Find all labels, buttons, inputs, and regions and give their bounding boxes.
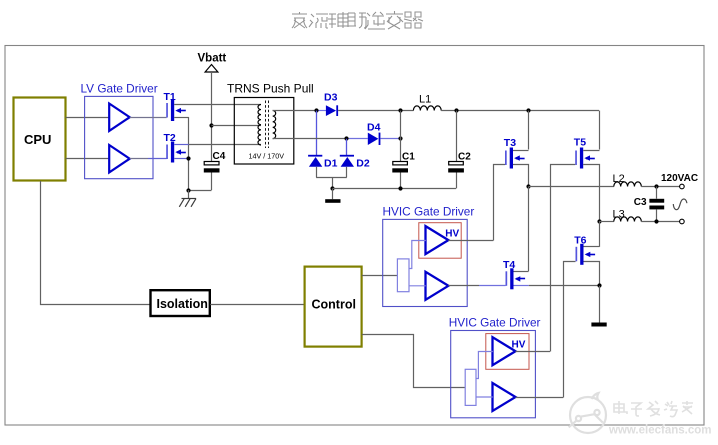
chassis ground <box>179 199 196 207</box>
node D3 anode junction <box>314 108 318 112</box>
HVIC driver 2 box <box>451 331 536 418</box>
node L3 tap <box>597 219 601 223</box>
wire connector to ground rail <box>332 177 334 188</box>
watermark logo (elecfans) bottom right <box>569 393 606 433</box>
wire D2 cathode vertical <box>346 139 348 155</box>
wire T3 source to midpoint <box>513 165 529 187</box>
transistor T5 (MOSFET) <box>575 148 595 169</box>
wire center tap to transformer <box>212 125 262 127</box>
svg-text:L1: L1 <box>419 94 431 106</box>
diode D1 <box>308 155 322 167</box>
svg-text:C4: C4 <box>213 151 226 162</box>
wire C4 bottom stem <box>211 173 213 191</box>
HVIC1 red HV box <box>419 223 461 259</box>
wire Control to HVIC1 input <box>362 275 398 277</box>
svg-text:T3: T3 <box>504 137 516 149</box>
svg-text:TRNS Push Pull: TRNS Push Pull <box>227 82 314 96</box>
svg-text:HV: HV <box>512 339 526 350</box>
AC sine symbol <box>673 199 687 210</box>
wire D2 anode stub <box>346 167 348 178</box>
title 交流辅助逆变器 (drawn strokes) <box>292 11 423 29</box>
inductor L2 <box>614 182 642 187</box>
wire L2 rail <box>529 186 614 188</box>
node T2 source junction <box>186 156 190 160</box>
wire T4 drain connector <box>514 271 529 273</box>
svg-text:D2: D2 <box>356 158 370 170</box>
wire T1 source right <box>174 117 189 119</box>
流 <box>309 14 328 28</box>
watermark text 电子发烧友 <box>614 401 693 417</box>
wire T5 gate to HVIC2 HV output <box>551 165 576 352</box>
wire T2 drain to transformer primary bottom <box>174 144 189 146</box>
wire L2 to terminal <box>641 186 679 188</box>
wire Vbatt stem to C4 <box>211 72 213 162</box>
wire T5 source vertical to L3 node <box>583 165 599 222</box>
wire T5 drain connector <box>583 150 599 152</box>
transformer core <box>265 101 267 149</box>
wire CPU to LV driver input 2 <box>66 158 111 160</box>
svg-text:Vbatt: Vbatt <box>198 53 227 65</box>
buffer U1B <box>109 145 130 172</box>
wire ground rail (D1D2 to C2) <box>333 188 456 190</box>
node D4 output junction <box>398 136 402 140</box>
inductor L1 <box>413 106 441 111</box>
wire T3 drain connector <box>513 150 529 152</box>
transformer primary winding <box>258 105 261 145</box>
wire HVIC2 shifter to lower buffer <box>476 396 493 398</box>
wire D1 branch vertical <box>316 111 318 155</box>
wire D3 cathode to L1 <box>338 110 413 112</box>
wire HVIC1 shifter to HV buffer <box>409 241 426 269</box>
wire HVIC2 HV output to T5 gate <box>516 351 551 353</box>
wire L1 to T5 drain corner <box>441 110 599 112</box>
wire T3 gate <box>494 165 506 241</box>
svg-text:120VAC: 120VAC <box>661 173 698 184</box>
wire C1 branch vertical <box>400 111 402 162</box>
capacitor C3 <box>649 199 664 210</box>
transformer secondary winding <box>273 111 276 139</box>
wire T4 source to ground node <box>514 285 529 287</box>
wire U1B output to T2 gate <box>130 158 148 160</box>
变 <box>386 11 403 29</box>
wire stub to right ground <box>599 286 601 323</box>
Vbatt symbol <box>205 65 218 73</box>
Control block <box>305 267 362 347</box>
capacitor C4 <box>204 162 220 173</box>
逆 <box>365 12 385 29</box>
HVIC1 lower buffer <box>426 272 449 300</box>
node D2 branch junction <box>344 136 348 140</box>
wire CPU to LV driver input 1 <box>66 117 111 119</box>
svg-text:D3: D3 <box>324 92 338 104</box>
wire D4 cathode to node <box>380 138 400 140</box>
CPU block <box>14 98 66 181</box>
node T4/T6 source junction <box>597 283 601 287</box>
wire T5 drain corner vertical <box>599 111 601 150</box>
svg-text:HVIC Gate Driver: HVIC Gate Driver <box>383 205 475 219</box>
node ground junction <box>186 188 190 192</box>
wire ground rail left <box>189 190 212 192</box>
HVIC1 HV buffer <box>426 226 449 254</box>
HVIC2 HV buffer <box>493 337 516 365</box>
HVIC1 level shifter <box>397 259 409 292</box>
wire secondary bottom to D4 <box>273 138 347 140</box>
terminal 120VAC neutral <box>680 219 685 224</box>
wire D1-D2 anode connector <box>316 177 347 179</box>
ground (bar) right <box>591 323 606 327</box>
capacitor C2 <box>448 162 464 173</box>
wire C1 bottom stem <box>400 173 402 189</box>
HVIC driver 1 box <box>383 219 468 306</box>
node T3/T4 midpoint <box>526 184 530 188</box>
ground (bar) <box>325 199 340 203</box>
svg-text:LV Gate Driver: LV Gate Driver <box>81 82 158 96</box>
buffer U1A <box>109 104 130 131</box>
wire U1A output to T1 gate <box>130 117 167 119</box>
node C1 ground junction <box>398 186 402 190</box>
svg-text:Isolation: Isolation <box>157 297 208 311</box>
inductor L3 <box>614 217 642 222</box>
交 <box>292 12 307 28</box>
wire stub to ground bar <box>332 188 334 199</box>
svg-text:14V / 170V: 14V / 170V <box>249 151 285 160</box>
器 <box>404 12 423 28</box>
svg-text:C3: C3 <box>634 197 647 208</box>
svg-text:D1: D1 <box>324 158 338 170</box>
wire T6 drain connector <box>584 246 600 248</box>
node D3/C1 branch top <box>398 108 402 112</box>
node L1 right junction <box>454 108 458 112</box>
node T3 drain tap <box>526 108 530 112</box>
svg-text:Control: Control <box>312 298 356 312</box>
diode D4 <box>368 133 381 145</box>
wire T1 drain to transformer primary top <box>174 104 261 106</box>
transistor T3 (MOSFET) <box>505 148 525 169</box>
capacitor C1 <box>392 162 408 173</box>
wire stub to chassis ground <box>188 190 190 199</box>
wire D1 anode stub <box>316 167 318 178</box>
svg-text:HV: HV <box>445 228 459 239</box>
wire L3 rail left <box>599 221 614 223</box>
svg-text:HVIC Gate Driver: HVIC Gate Driver <box>449 315 541 329</box>
wire T2 source right <box>174 158 189 160</box>
node C3 bottom tap <box>654 219 658 223</box>
wire T6 gate to HVIC2 output <box>564 262 576 398</box>
助 <box>347 13 366 28</box>
wire C2 bottom stem <box>456 173 458 189</box>
node ground rail left junction <box>330 186 334 190</box>
wire T3 drain vertical <box>528 111 530 150</box>
wire HVIC2 lower output to T6 gate <box>516 397 564 399</box>
transistor T1 (MOSFET) <box>166 100 186 121</box>
wire Control to HVIC2 input <box>362 335 465 388</box>
HVIC2 lower buffer <box>493 383 516 411</box>
wire T6 drain vertical <box>599 221 601 247</box>
transistor T4 (MOSFET) <box>506 268 526 289</box>
wire CPU bottom to Isolation <box>41 181 151 305</box>
wire C3 stems <box>656 187 658 222</box>
wire Isolation to Control <box>210 304 304 306</box>
wire T4 drain vertical <box>528 186 530 271</box>
HVIC2 level shifter <box>465 369 476 405</box>
transistor T2 (MOSFET) <box>166 142 186 163</box>
wire HVIC1 shifter to lower buffer <box>409 285 426 287</box>
wire L3 to terminal <box>641 221 679 223</box>
wire secondary top to D3 <box>273 110 316 112</box>
terminal 120VAC hot <box>680 184 685 189</box>
svg-text:D4: D4 <box>367 122 381 134</box>
wire HVIC1 lower output to T4 gate <box>448 285 479 287</box>
LV Gate Driver box <box>85 96 153 178</box>
wire C2 branch vertical <box>456 111 458 162</box>
wire T1/T2 source vertical to ground node <box>188 117 190 190</box>
svg-text:T5: T5 <box>574 137 586 149</box>
svg-text:www.elecfans.com: www.elecfans.com <box>608 425 711 437</box>
svg-text:T4: T4 <box>503 259 515 271</box>
svg-text:C2: C2 <box>458 152 471 163</box>
svg-text:CPU: CPU <box>24 132 51 147</box>
transistor T6 (MOSFET) <box>576 244 596 265</box>
node C3 top tap <box>654 184 658 188</box>
wire T6 source to ground node <box>584 262 600 286</box>
HVIC2 red HV box <box>486 334 529 370</box>
Isolation block <box>151 290 210 316</box>
wire HVIC2 shifter to HV buffer <box>476 352 493 379</box>
svg-text:C1: C1 <box>402 152 415 163</box>
辅 <box>328 12 348 28</box>
diode D2 <box>340 155 354 167</box>
transformer TRNS box <box>234 98 293 165</box>
diode D3 <box>326 105 338 116</box>
node Vbatt / center tap junction <box>209 123 213 127</box>
wire HVIC1 HV output to T3 gate <box>448 240 493 242</box>
